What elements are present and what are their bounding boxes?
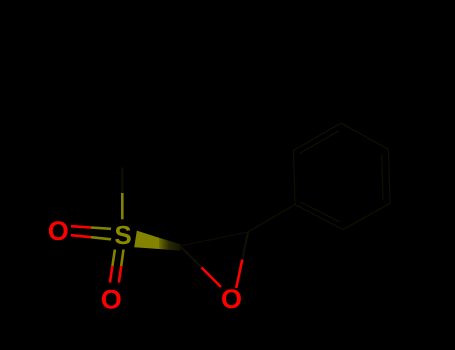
svg-text:S: S (114, 220, 131, 250)
benzene ring outline (dark carbon) (294, 123, 391, 230)
wire: S=O1 double bond bottom line red half (71, 235, 91, 237)
wire: epoxide C2-O3 bond red half (236, 260, 242, 289)
wire: methyl S-half bond (sulfur olive) (121, 193, 124, 219)
wire: S=O1 double bond top line red half (71, 226, 91, 227)
svg-text:O: O (48, 216, 69, 246)
svg-text:O: O (221, 284, 242, 314)
wire: S=O1 double bond top line olive half (91, 228, 111, 229)
ring inner double bond B-C (300, 131, 340, 154)
wire: epoxide C-C bond (dark carbon) (180, 232, 248, 246)
svg-text:O: O (101, 285, 122, 315)
wire: methyl C-H half bond (carbon, dark) (121, 168, 123, 194)
wire: epoxide Ca-O3 bond carbon half (180, 246, 202, 268)
wedge bond S to stereocenter, olive half (134, 231, 159, 249)
wire: S=O1 double bond bottom line olive half (91, 237, 111, 239)
wire: epoxide C2-O3 bond carbon half (242, 232, 248, 260)
ring inner double bond D-E (382, 155, 383, 200)
wire: S=O2 double bond left line olive half (112, 250, 115, 267)
wire: epoxide Ca-O3 bond red half (202, 268, 222, 288)
wire: S=O2 double bond left line red half (110, 266, 113, 283)
wire: C2 to phenyl ipso bond (dark carbon) (248, 205, 295, 233)
wire: S=O2 double bond right line red half (119, 266, 121, 283)
wire: S=O2 double bond right line olive half (121, 250, 123, 267)
ring inner double bond F-A (301, 202, 340, 222)
